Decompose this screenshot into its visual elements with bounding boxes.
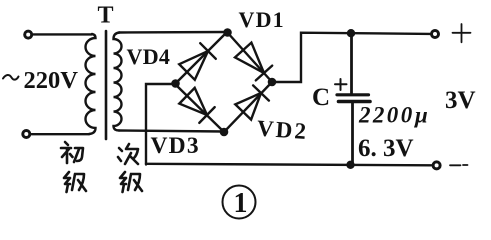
label ji (grade) char 级 left [64,172,86,192]
bridge diamond edge T-R [227,32,272,82]
junction dot: bridge right corner [268,78,277,87]
svg-text:VD2: VD2 [256,116,309,145]
bridge diamond edge L-T [175,32,227,84]
svg-text:6. 3V: 6. 3V [358,135,414,162]
AC tilde symbol [3,75,19,80]
terminal: primary bottom input [23,131,30,138]
svg-text:220V: 220V [24,67,79,94]
terminal: output minus [433,162,440,169]
diode VD2 triangle (B to R edge) [235,93,261,120]
terminal: primary top input [25,31,32,38]
svg-text:T: T [98,3,114,29]
capacitor C1 top plate [337,93,369,96]
diode VD4 triangle (L to T edge) [179,51,208,80]
wire: primary top lead [33,33,92,35]
wire: bridge minus (left corner) down to bottom rail [146,84,175,165]
label chu (primary) char 初 [61,142,83,163]
figure number circled 1 [223,186,256,220]
capacitor C1 polarity plus [335,79,347,90]
label ji (grade) char 级 right [120,172,142,192]
junction dot: bridge bottom corner [220,128,229,137]
output plus sign [453,24,471,42]
junction dot: bridge top corner [223,28,232,37]
diode VD4 cathode bar [200,43,216,59]
diode VD3 triangle (L to B edge) [179,88,207,115]
svg-text:C: C [312,84,330,111]
wire: secondary bottom to bridge AC node [119,131,224,132]
svg-text:3V: 3V [445,87,476,114]
diode VD2 cathode bar [253,85,269,100]
junction dot: bottom rail capacitor tap [346,161,354,169]
terminal: output plus [432,31,439,38]
bridge diamond edge R-B [224,82,272,132]
wire: bottom rail [146,164,432,166]
diode VD3 cathode bar [199,107,214,123]
svg-text:VD3: VD3 [151,133,200,159]
capacitor C1 bottom plate [339,100,371,104]
bridge diamond edge B-L [175,84,224,132]
svg-text:VD1: VD1 [239,7,285,32]
label ci (secondary) char 次 [118,144,138,164]
wire: bridge plus (right corner) up to top rail [272,33,430,82]
capacitor C1 bottom lead [351,103,354,165]
svg-text:2200µ: 2200µ [358,103,430,128]
wire: primary bottom lead [31,133,89,135]
transformer T core [105,31,108,139]
junction dot: bridge left corner [171,79,180,88]
diode VD1 triangle (T to R edge) [235,43,264,73]
wire: secondary top to bridge AC node [119,31,227,34]
transformer T primary winding [86,34,96,134]
capacitor C1 top lead [350,33,353,93]
transformer T secondary winding [114,33,122,131]
junction dot: top rail capacitor tap [347,29,355,37]
output minus sign [450,164,468,166]
svg-text:1: 1 [234,188,248,219]
svg-text:VD4: VD4 [127,44,171,69]
diode VD1 cathode bar [256,66,272,81]
